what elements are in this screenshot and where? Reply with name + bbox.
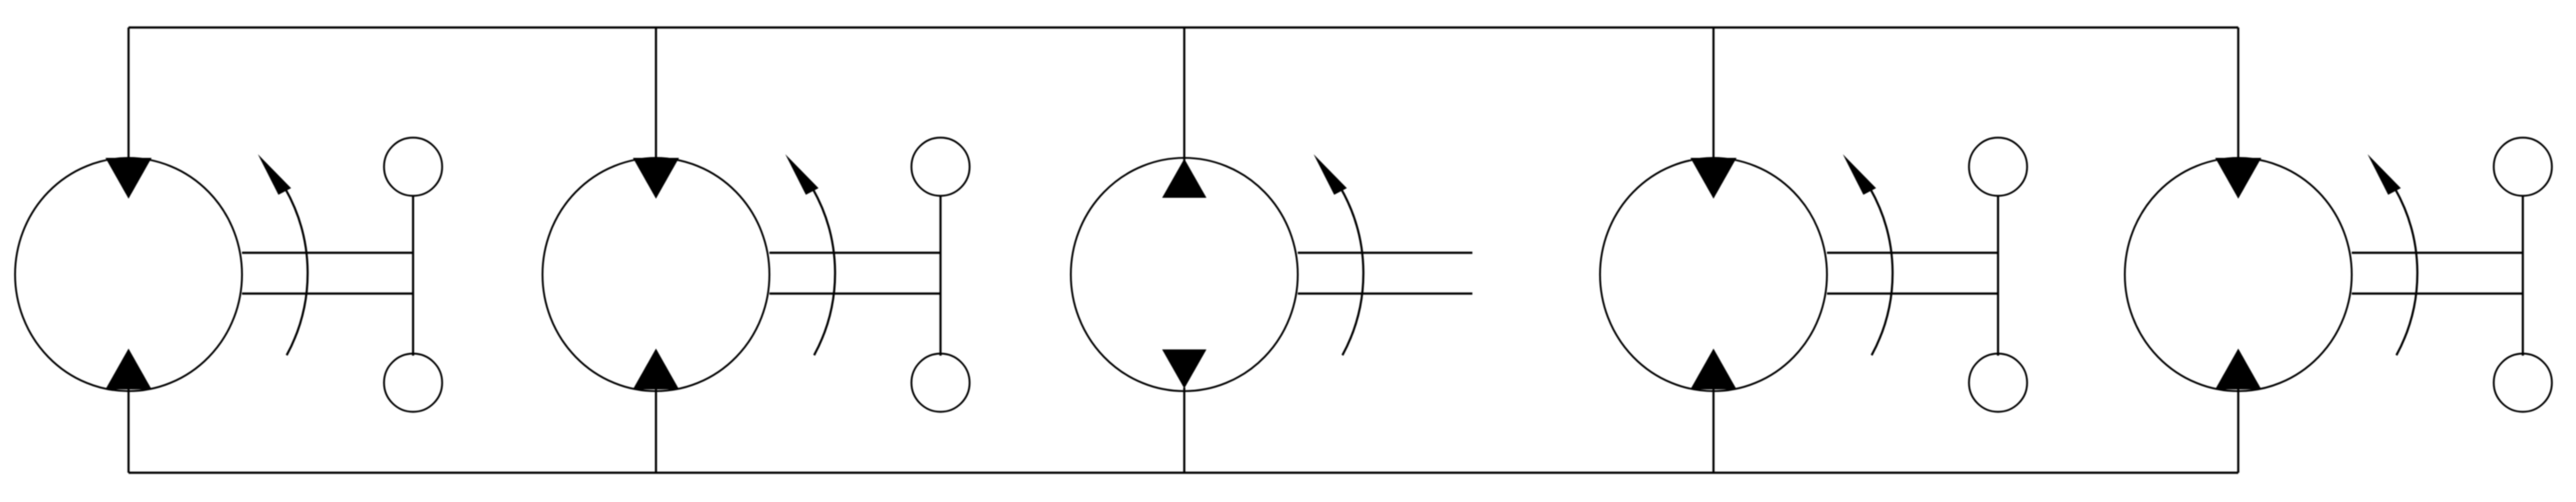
- wire: motor M2 bottom branch: [655, 388, 657, 473]
- motor M3 body circle: [1600, 158, 1827, 391]
- motor M3 drive shaft (double line): [1827, 253, 1998, 294]
- motor M2 top port triangle (pointing down/in): [633, 158, 679, 199]
- motor M4 bottom port triangle (pointing up/in): [2215, 349, 2261, 389]
- motor M2 bottom port triangle (pointing up/in): [633, 349, 679, 389]
- wire: motor M1 top branch: [128, 27, 129, 162]
- motor M1 coupling bottom circle: [384, 354, 442, 412]
- motor M4 top port triangle (pointing down/in): [2215, 158, 2261, 199]
- motor M4 coupling top circle: [2494, 137, 2552, 196]
- motor M3 top port triangle (pointing down/in): [1690, 158, 1737, 199]
- motor M4 rotation direction arrow: [2368, 154, 2417, 356]
- motor M4 drive shaft (double line): [2352, 253, 2523, 294]
- motor M2 coupling bottom circle: [911, 354, 970, 412]
- pump P1 bottom port triangle (pointing down/out): [1162, 349, 1206, 388]
- wire: pump P1 top branch: [1183, 27, 1185, 162]
- motor M2 body circle: [543, 158, 769, 391]
- pump P1 top port triangle (pointing up/out): [1162, 159, 1206, 198]
- wire: motor M2 top branch: [655, 27, 657, 162]
- motor M2 coupling top circle: [911, 137, 970, 196]
- motor M1 coupling bar: [412, 196, 414, 356]
- wire: top bus line: [129, 27, 2238, 28]
- motor M1 drive shaft (double line): [242, 253, 413, 294]
- wire: motor M1 bottom branch: [128, 388, 129, 473]
- motor M4 coupling bottom circle: [2494, 354, 2552, 412]
- wire: motor M3 top branch: [1713, 27, 1714, 162]
- wire: motor M4 bottom branch: [2237, 388, 2239, 473]
- motor M2 drive shaft (double line): [769, 253, 941, 294]
- motor M1 body circle: [15, 158, 242, 391]
- motor M4 body circle: [2125, 158, 2352, 391]
- motor M2 coupling bar: [940, 196, 941, 356]
- motor M4 coupling bar: [2522, 196, 2524, 356]
- wire: bottom bus line: [129, 472, 2238, 474]
- motor M1 top port triangle (pointing down/in): [105, 158, 152, 199]
- motor M3 coupling bar: [1997, 196, 1999, 356]
- pump P1 drive shaft (double line): [1298, 253, 1472, 294]
- wire: pump P1 bottom branch: [1183, 388, 1185, 473]
- motor M1 coupling top circle: [384, 137, 442, 196]
- motor M3 coupling bottom circle: [1969, 354, 2027, 412]
- pump P1 rotation direction arrow: [1314, 154, 1363, 356]
- motor M3 rotation direction arrow: [1843, 154, 1893, 356]
- motor M3 coupling top circle: [1969, 137, 2027, 196]
- motor M1 rotation direction arrow: [258, 154, 308, 356]
- motor M3 bottom port triangle (pointing up/in): [1690, 349, 1737, 389]
- motor M2 rotation direction arrow: [785, 154, 835, 356]
- pump P1 body circle: [1071, 158, 1298, 391]
- motor M1 bottom port triangle (pointing up/in): [105, 349, 152, 389]
- wire: motor M3 bottom branch: [1713, 388, 1714, 473]
- wire: motor M4 top branch: [2237, 27, 2239, 162]
